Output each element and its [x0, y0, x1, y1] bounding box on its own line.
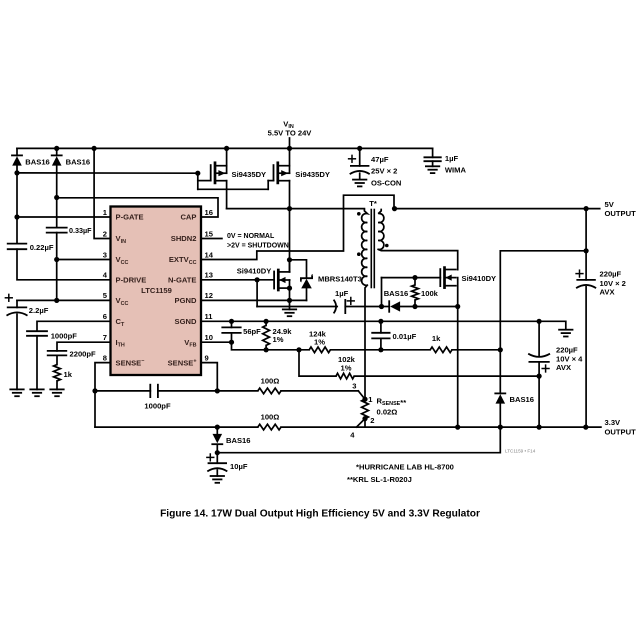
diode D3 MBRS140T3 schottky: [301, 275, 313, 281]
node VCC pin5 junction: [54, 298, 59, 303]
svg-text:SHDN2: SHDN2: [171, 234, 197, 243]
wire 5V cap top lead: [585, 209, 587, 280]
node 5V line / output cap: [584, 206, 589, 211]
svg-text:2: 2: [103, 229, 107, 238]
wire 124k to 0.01uF node: [330, 349, 381, 351]
diode D2 BAS16 (second): [56, 148, 58, 155]
capacitor C5 1000pF: [27, 330, 47, 332]
wire Q4 gate branch vertical: [381, 278, 383, 307]
svg-text:1%: 1%: [341, 364, 352, 373]
svg-text:3: 3: [103, 250, 107, 259]
transformer T1 core: [370, 210, 372, 288]
wire 102k branch down: [299, 350, 336, 376]
svg-text:Si9435DY: Si9435DY: [232, 170, 267, 179]
svg-text:10: 10: [205, 333, 213, 342]
wire 5V output line: [395, 208, 600, 210]
svg-text:10µF: 10µF: [230, 462, 248, 471]
transformer phase dot upper-left: [357, 212, 361, 216]
svg-text:SGND: SGND: [175, 317, 197, 326]
wire pin5 VCC: [17, 299, 111, 301]
svg-text:1µF: 1µF: [445, 154, 459, 163]
wire 1uF to gate network node: [345, 306, 381, 308]
svg-text:Si9410DY: Si9410DY: [237, 267, 272, 276]
wire Rsense bottom to 3.3V line: [364, 419, 366, 428]
resistor R1 RSENSE 0.02ohm: [362, 399, 369, 418]
wire Q2 gate lead: [268, 180, 273, 182]
wire Q3 drain up to switch node: [289, 260, 291, 272]
svg-text:BAS16: BAS16: [66, 157, 90, 166]
wire source line to Q4: [415, 306, 458, 308]
svg-text:2: 2: [370, 416, 374, 425]
ground (2.2uF): [10, 388, 23, 390]
ground (1000pF): [30, 388, 43, 390]
wire 0.33uF to VCC node: [56, 233, 58, 301]
wire Q2 source/body to rail: [289, 148, 291, 173]
node VIN rail / diode D2 junction: [54, 146, 59, 151]
capacitor C9 1uF coupling: [334, 300, 337, 314]
node Q2 drain / MBRS line: [287, 257, 292, 262]
node SGND / 0.01uF: [378, 319, 383, 324]
node SGND / 24.9k: [264, 319, 269, 324]
wire 5V to aux link: [500, 251, 586, 350]
capacitor C12 0.01uF: [380, 321, 382, 333]
node 5V line / secondary top: [392, 206, 397, 211]
node sense+ / pin9: [215, 388, 220, 393]
transformer T1 primary winding: [362, 209, 368, 286]
wire left column to 0.22uF: [16, 173, 18, 244]
svg-text:8: 8: [103, 353, 107, 362]
node VIN rail / Q1 source junction: [224, 146, 229, 151]
node VIN rail / pin2 junction: [92, 146, 97, 151]
svg-text:6: 6: [103, 312, 107, 321]
diode D5 BAS16 (3.3V clamp): [499, 350, 501, 394]
resistor R7 1k: [430, 347, 452, 353]
capacitor C13 220uF 10Vx4 AVX: [538, 321, 540, 355]
svg-text:3: 3: [352, 382, 356, 391]
wire switch node line: [227, 208, 365, 210]
wire gate tie vertical right: [267, 181, 269, 190]
capacitor C11 56pF: [231, 321, 233, 327]
wire N-GATE branch down to 1uF line: [256, 280, 258, 307]
node gate line / R4 100k: [412, 275, 417, 280]
svg-text:3.3V: 3.3V: [605, 418, 622, 427]
svg-text:47µF: 47µF: [371, 155, 389, 164]
svg-text:9: 9: [205, 353, 209, 362]
node 3.3V / 5V cap bottom: [583, 425, 588, 430]
svg-text:BAS16: BAS16: [384, 289, 408, 298]
svg-text:0.22µF: 0.22µF: [30, 243, 54, 252]
svg-text:100Ω: 100Ω: [261, 376, 280, 385]
wire 0.22uF to P-DRIVE: [17, 249, 111, 280]
svg-text:1%: 1%: [273, 335, 284, 344]
wire P-GATE drive line: [17, 172, 198, 174]
wire 2.2uF to ground: [16, 314, 18, 389]
wire SENSE+ stub pin9: [201, 363, 217, 391]
node P-GATE / left column: [14, 214, 19, 219]
node Rsense top: [362, 397, 367, 402]
svg-text:N-GATE: N-GATE: [168, 276, 197, 285]
node VIN rail / C47u junction: [357, 146, 362, 151]
transistor Q4 Si9410DY (3.3V sync FET): [439, 269, 441, 286]
svg-text:*HURRICANE LAB HL-8700: *HURRICANE LAB HL-8700: [356, 463, 454, 472]
wire 1000pF to ground: [36, 336, 38, 390]
node D6 cathode / 10uF: [215, 450, 220, 455]
svg-text:220µF: 220µF: [556, 346, 578, 355]
svg-text:Si9435DY: Si9435DY: [295, 170, 330, 179]
svg-text:BAS16: BAS16: [510, 395, 534, 404]
wire sense- line: [95, 426, 258, 428]
resistor R10 100ohm (sense-): [258, 424, 281, 430]
node SGND / 56pF: [229, 319, 234, 324]
node SGND / 220uFx4: [537, 319, 542, 324]
svg-text:1000pF: 1000pF: [144, 401, 171, 410]
diode D6 BAS16 (bottom): [216, 427, 218, 434]
wire pin11 SGND ground rail: [201, 321, 566, 329]
svg-text:14: 14: [205, 250, 214, 259]
capacitor C7 47uF 25Vx2 OS-CON: [349, 158, 356, 160]
svg-text:2.2µF: 2.2µF: [29, 306, 49, 315]
wire Rsense tap 4 diagonal: [357, 419, 366, 428]
wire gate tie horizontal: [198, 188, 268, 190]
node VIN rail / Q2 source junction: [287, 146, 292, 151]
svg-text:15: 15: [205, 229, 214, 238]
diode D1 BAS16 (left): [16, 148, 18, 155]
svg-text:0.33µF: 0.33µF: [69, 226, 92, 235]
svg-text:1%: 1%: [314, 337, 325, 346]
ground (47uF): [353, 179, 366, 181]
wire Q1 gate lead: [198, 180, 211, 182]
svg-text:16: 16: [205, 208, 213, 217]
node 102k line / 220uFx4 lead: [537, 374, 542, 379]
svg-text:AVX: AVX: [556, 363, 571, 372]
wire Q1 drain to switch node: [226, 181, 228, 209]
svg-text:OUTPUT: OUTPUT: [605, 209, 637, 218]
svg-text:1k: 1k: [64, 370, 73, 379]
svg-text:1000pF: 1000pF: [51, 331, 78, 340]
wire R2 to ground: [56, 381, 58, 390]
node 3.3V / D5 anode / 10uF line: [498, 425, 503, 430]
wire pin8 SENSE- down: [95, 363, 111, 391]
wire 1uF coupling line left segment: [257, 306, 337, 308]
wire pin14 EXTVCC route to 5V: [201, 195, 394, 259]
node divider / 102k branch: [296, 347, 301, 352]
node 0.01uF bottom: [378, 347, 383, 352]
wire 220uFx4 bottom to 3.3V line: [538, 362, 540, 427]
wire secondary bottom lead to Q4 drain: [378, 249, 458, 269]
wire MBRS cathode to switch node: [290, 260, 307, 278]
wire Q2 drain down to Q3 drain: [289, 181, 291, 272]
svg-text:PGND: PGND: [175, 296, 197, 305]
node 3.3V / D6 anode: [215, 425, 220, 430]
svg-text:100k: 100k: [421, 289, 439, 298]
ground (10uF): [211, 475, 224, 477]
node divider / 24.9k bottom: [264, 347, 269, 352]
transistor Q1 Si9435DY: [210, 165, 212, 180]
svg-text:100Ω: 100Ω: [261, 413, 280, 422]
wire Q4 gate line: [382, 277, 441, 279]
svg-text:1k: 1k: [432, 334, 441, 343]
wire VIN label lead: [289, 138, 291, 148]
node Rsense bottom: [362, 416, 367, 421]
svg-text:Si9410DY: Si9410DY: [462, 274, 497, 283]
svg-text:MBRS140T3: MBRS140T3: [318, 275, 362, 284]
capacitor C4 2.2uF: [5, 297, 12, 299]
svg-text:P-GATE: P-GATE: [116, 213, 144, 222]
wire pin6 CT to 1000pF: [37, 321, 111, 331]
node 3.3V / 220uFx4: [537, 425, 542, 430]
svg-text:**KRL SL-1-R020J: **KRL SL-1-R020J: [347, 475, 412, 484]
capacitor C3 0.33uF: [47, 227, 67, 229]
node 100k bottom / source line: [412, 304, 417, 309]
ground (PGND): [289, 300, 291, 309]
svg-text:OUTPUT: OUTPUT: [605, 428, 637, 437]
svg-text:0V = NORMAL: 0V = NORMAL: [227, 233, 275, 240]
svg-text:P-DRIVE: P-DRIVE: [116, 276, 147, 285]
wire 1k to D5 node: [452, 349, 500, 351]
resistor R5 24.9k 1%: [263, 325, 270, 345]
wire gate tie vertical left: [197, 173, 199, 189]
svg-text:Figure 14. 17W Dual Output Hig: Figure 14. 17W Dual Output High Efficien…: [160, 509, 480, 520]
ground (output): [559, 329, 572, 331]
svg-text:7: 7: [103, 333, 107, 342]
svg-text:56pF: 56pF: [243, 327, 261, 336]
wire 2200pF to R2: [56, 355, 58, 364]
wire Q1 source/body to rail: [226, 148, 228, 173]
wire CAP pin16 loop: [57, 198, 218, 217]
node D2 anode / CAP line: [54, 195, 59, 200]
svg-text:2200pF: 2200pF: [70, 349, 97, 358]
capacitor C8 1uF WIMA: [432, 148, 434, 157]
svg-text:11: 11: [205, 312, 214, 321]
wire 10uF line to 3.3V: [217, 427, 500, 453]
capacitor C15 10uF: [207, 456, 214, 458]
transformer phase dot lower-left: [357, 252, 361, 256]
node gate tie: [195, 171, 200, 176]
node switch line / Q2 drain: [287, 206, 292, 211]
resistor R6 124k 1%: [309, 347, 330, 353]
svg-text:>2V = SHUTDOWN: >2V = SHUTDOWN: [227, 243, 289, 250]
svg-text:AVX: AVX: [600, 288, 615, 297]
wire SENSE- to 3.3V sense line: [94, 391, 96, 427]
svg-text:13: 13: [205, 271, 213, 280]
wire pin3 VCC: [57, 259, 111, 261]
wire 102k to 220uFx4 node: [354, 375, 539, 377]
svg-text:220µF: 220µF: [600, 270, 622, 279]
transistor Q2 Si9435DY: [273, 165, 275, 180]
svg-text:OS-CON: OS-CON: [371, 178, 401, 187]
svg-text:5.5V TO 24V: 5.5V TO 24V: [268, 129, 313, 138]
resistor R9 100ohm (sense+): [258, 388, 281, 394]
op-amp U1 LTC1159 regulator IC body: [111, 207, 202, 376]
svg-text:12: 12: [205, 291, 213, 300]
node 3.3V / Q4 source: [455, 425, 460, 430]
capacitor C14 1000pF (sense filter): [149, 385, 151, 397]
wire VIN top rail: [17, 147, 433, 149]
resistor R4 100k: [414, 278, 416, 285]
wire Q3 body-source down to PGND: [289, 280, 291, 300]
svg-text:SENSE−: SENSE−: [116, 358, 145, 367]
wire sense+ line left: [95, 390, 150, 392]
wire pin2 VIN from rail: [94, 148, 110, 238]
capacitor C10 220uF 10Vx2 AVX: [576, 273, 583, 275]
svg-text:WIMA: WIMA: [445, 166, 467, 175]
svg-text:BAS16: BAS16: [25, 157, 49, 166]
transformer phase dot right: [385, 244, 389, 248]
node D1 anode / P-GATE line: [14, 170, 19, 175]
wire 3.3V line: [281, 426, 601, 428]
wire 5V cap bottom to 3.3V line: [585, 287, 587, 427]
svg-text:LTC1159: LTC1159: [141, 286, 172, 295]
transistor Q3 Si9410DY (sync FET): [273, 272, 275, 289]
pin15 SHDN2 stub: [201, 238, 222, 240]
ground (1uF WIMA): [426, 165, 439, 167]
node Q3 source junction: [287, 286, 292, 291]
node 5V output cap / link: [584, 248, 589, 253]
wire pin12 PGND line: [201, 299, 307, 301]
node PGND / Q3 / D3 junction: [287, 298, 292, 303]
capacitor C2 0.22uF: [8, 243, 27, 245]
wire sense+ line mid: [158, 390, 258, 392]
node N-GATE / 1uF branch: [255, 277, 260, 282]
wire pin13 N-GATE to Q3 gate: [201, 279, 274, 281]
transformer T1 secondary winding: [378, 209, 384, 250]
node Q4 source junction: [455, 304, 460, 309]
svg-text:T*: T*: [369, 199, 377, 208]
wire VFB down to divider line: [232, 342, 310, 350]
node VCC pin3 junction: [54, 257, 59, 262]
diode D4 BAS16 (gate network): [382, 306, 389, 308]
wire x57 vertical to 0.33uF: [56, 198, 58, 228]
node 1uF / D4 / Q4 gate branch: [379, 304, 384, 309]
svg-text:SENSE+: SENSE+: [168, 358, 197, 367]
node D5 cathode / link: [498, 347, 503, 352]
svg-text:0.02Ω: 0.02Ω: [377, 408, 398, 417]
svg-text:0.01µF: 0.01µF: [393, 332, 417, 341]
node VFB / 56pF: [229, 340, 234, 345]
wire 0.01uF node to R7 1k: [381, 349, 430, 351]
svg-text:LTC1159 • F14: LTC1159 • F14: [505, 448, 536, 453]
svg-text:CAP: CAP: [180, 213, 196, 222]
wire Q4 body-source down to 3.3V line: [457, 278, 459, 428]
resistor R8 102k 1%: [336, 373, 354, 379]
resistor R2 1k: [54, 365, 61, 381]
wire pin1 P-GATE: [17, 216, 111, 218]
wire pin7 ITH to 2200pF: [57, 342, 111, 351]
svg-text:BAS16: BAS16: [226, 436, 250, 445]
wire primary bottom lead to sense resistor: [365, 285, 367, 399]
wire pin10 VFB: [201, 341, 232, 343]
node SENSE- / 1000pF line: [92, 388, 97, 393]
wire sense+ to Rsense tap 3: [281, 390, 358, 392]
wire Rsense tap 3 diagonal: [358, 391, 365, 399]
ground (R2): [50, 388, 63, 390]
capacitor C6 2200pF: [48, 350, 67, 352]
svg-text:25V × 2: 25V × 2: [371, 167, 397, 176]
svg-text:1µF: 1µF: [335, 289, 349, 298]
